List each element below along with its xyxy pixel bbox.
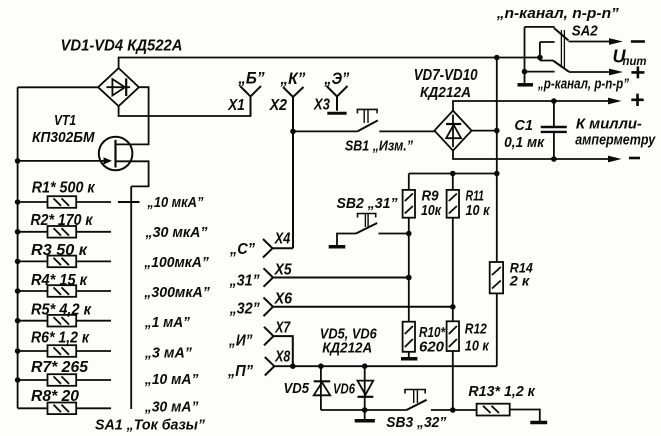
svg-text:VT1: VT1 (54, 112, 76, 129)
svg-text:SA2: SA2 (572, 24, 598, 40)
svg-text:К милли-: К милли- (576, 116, 642, 133)
label VD1-VD4 КД522А (61, 38, 183, 55)
svg-text:КД212А: КД212А (322, 340, 372, 357)
svg-text:SB2 „31”: SB2 „31” (337, 195, 398, 212)
plus sign milliammeter (631, 94, 643, 106)
diode VD5 (314, 363, 331, 410)
svg-text:R7* 265: R7* 265 (31, 359, 89, 376)
svg-text:0,1 мк: 0,1 мк (504, 135, 545, 151)
minus sign milliammeter (629, 157, 640, 160)
svg-text:R13* 1,2 к: R13* 1,2 к (468, 383, 536, 400)
diode bridge VD1-VD4 (98, 68, 139, 106)
wire bridge right vertex to VT1 drain (116, 87, 149, 144)
svg-text:пит: пит (623, 56, 647, 68)
svg-text:2 к: 2 к (509, 273, 530, 289)
connector X2 (283, 87, 304, 248)
svg-text:X2: X2 (269, 97, 287, 114)
svg-text:10к: 10к (421, 202, 442, 219)
svg-text:„3 мА”: „3 мА” (144, 344, 192, 361)
push button SB1 Изм. (293, 109, 435, 131)
svg-text:10 к: 10 к (465, 338, 490, 355)
wire gate of VT1 from left bus (15, 157, 112, 164)
connector X7 (264, 327, 296, 369)
diode bridge VD7-VD10 (434, 111, 471, 151)
connector X8 (265, 357, 497, 376)
label SA1 Ток базы (95, 417, 205, 434)
svg-text:620: 620 (419, 339, 445, 356)
svg-text:SB1 „Изм.”: SB1 „Изм.” (345, 138, 413, 155)
svg-text:„p-канал, p-n-p”: „p-канал, p-n-p” (537, 76, 629, 93)
connector X3 (327, 86, 348, 113)
wire top feed from VD1-VD4 bridge top to SA2 (119, 58, 540, 69)
diode VD6 (355, 363, 375, 420)
svg-text:10 к: 10 к (466, 202, 491, 219)
svg-text:„30 мА”: „30 мА” (144, 399, 199, 416)
svg-text:„300мкА”: „300мкА” (143, 284, 210, 301)
svg-text:„Э”: „Э” (323, 69, 349, 88)
svg-text:„1 мА”: „1 мА” (144, 314, 190, 331)
svg-text:R5* 4,2 к: R5* 4,2 к (31, 302, 92, 319)
label p-канал p-n-p (537, 76, 629, 93)
switch SA1 wiper at position 1 (118, 201, 140, 203)
resistor R1 (15, 196, 111, 208)
svg-text:„П”: „П” (227, 363, 253, 380)
connector X4 (263, 239, 293, 258)
svg-text:„С”: „С” (229, 241, 255, 258)
svg-text:„32”: „32” (229, 301, 260, 318)
resistor R2 (15, 226, 111, 238)
svg-text:X7: X7 (274, 320, 291, 337)
svg-text:X1: X1 (227, 97, 244, 114)
label Uпит (613, 47, 647, 68)
wire vertical feed bus x=496.8 (494, 55, 500, 262)
svg-text:VD1-VD4 КД522А: VD1-VD4 КД522А (61, 38, 183, 55)
svg-text:„10 мкА”: „10 мкА” (147, 194, 204, 211)
resistor R3 (15, 256, 111, 268)
svg-text:R1* 500 к: R1* 500 к (32, 179, 96, 196)
label VT1 КП302БМ (32, 112, 95, 146)
svg-text:X8: X8 (274, 348, 290, 365)
svg-text:амперметру: амперметру (575, 132, 656, 149)
resistor R12 (447, 321, 459, 413)
plus sign Uпит (631, 66, 644, 78)
wire bridge bottom to X1 (119, 97, 251, 117)
connector X6 (264, 298, 456, 317)
resistor R13 (477, 404, 548, 423)
connector X1 (240, 86, 261, 116)
wire left bus (18, 87, 99, 408)
svg-text:X4: X4 (274, 231, 290, 248)
wire bottom rail VD5 VD6 to SB3 (321, 407, 407, 413)
resistor R11 (447, 174, 459, 322)
resistor R6 (15, 345, 111, 357)
svg-text:КД212А: КД212А (420, 84, 471, 101)
svg-text:VD7-VD10: VD7-VD10 (414, 67, 478, 84)
resistor R10 (401, 322, 417, 359)
label n-канал n-p-n (496, 5, 620, 22)
push button SB3 32 (405, 390, 477, 411)
wire SA2 arrow to Uпит plus (569, 69, 623, 76)
svg-text:R2* 170 к: R2* 170 к (31, 212, 94, 229)
svg-text:R3 50 к: R3 50 к (31, 242, 88, 259)
svg-text:„К”: „К” (279, 69, 305, 88)
svg-text:X3: X3 (313, 97, 330, 114)
capacitor C1 (541, 101, 567, 159)
svg-text:C1: C1 (514, 118, 533, 134)
wire R9 R11 top rail (409, 171, 500, 177)
svg-text:X6: X6 (274, 291, 292, 308)
minus sign Uпит (631, 40, 645, 43)
push button SB2 31 (329, 214, 412, 247)
wire bridge2 bottom to milliammeter minus (453, 151, 622, 163)
svg-text:X5: X5 (274, 262, 293, 279)
svg-text:„100мкА”: „100мкА” (143, 254, 209, 271)
connector X5 (264, 268, 412, 287)
resistor R9 (403, 174, 415, 322)
svg-text:„10 мА”: „10 мА” (144, 371, 199, 388)
svg-text:„n-канал, n-p-n”: „n-канал, n-p-n” (496, 5, 620, 22)
svg-text:КП302БМ: КП302БМ (32, 129, 95, 146)
wire bridge2 top to milliammeter plus (453, 98, 622, 111)
svg-text:VD5: VD5 (284, 380, 310, 397)
svg-text:„31”: „31” (229, 273, 260, 290)
svg-text:SB3 „32”: SB3 „32” (386, 414, 446, 431)
resistor R7 (15, 374, 111, 386)
switch SA2 (518, 27, 570, 85)
switch SA1 common line (130, 186, 132, 409)
wire SA2 arrow to Uпит minus (569, 38, 623, 45)
svg-text:„30 мкА”: „30 мкА” (145, 224, 208, 241)
svg-text:R4* 15 к: R4* 15 к (31, 272, 88, 289)
svg-text:R12: R12 (465, 321, 488, 338)
svg-text:R6* 1,2 к: R6* 1,2 к (31, 330, 90, 347)
label VD5, VD6 КД212А (320, 326, 378, 357)
svg-text:VD6: VD6 (333, 381, 355, 398)
resistor R8 (18, 403, 111, 415)
labels SA1 positions (143, 194, 210, 416)
svg-text:„Б”: „Б” (237, 68, 265, 87)
resistor R14 (490, 262, 503, 366)
wire bridge2 right vertex to feed bus (472, 128, 500, 134)
svg-text:„И”: „И” (228, 333, 252, 350)
svg-text:SA1 „Ток базы”: SA1 „Ток базы” (95, 417, 205, 434)
resistor R4 (15, 285, 111, 297)
label К миллиамперметру (575, 116, 656, 149)
resistor R5 (15, 315, 111, 327)
transistor VT1 (FET КП302БМ) (99, 137, 149, 187)
svg-text:R8* 20: R8* 20 (31, 388, 79, 405)
